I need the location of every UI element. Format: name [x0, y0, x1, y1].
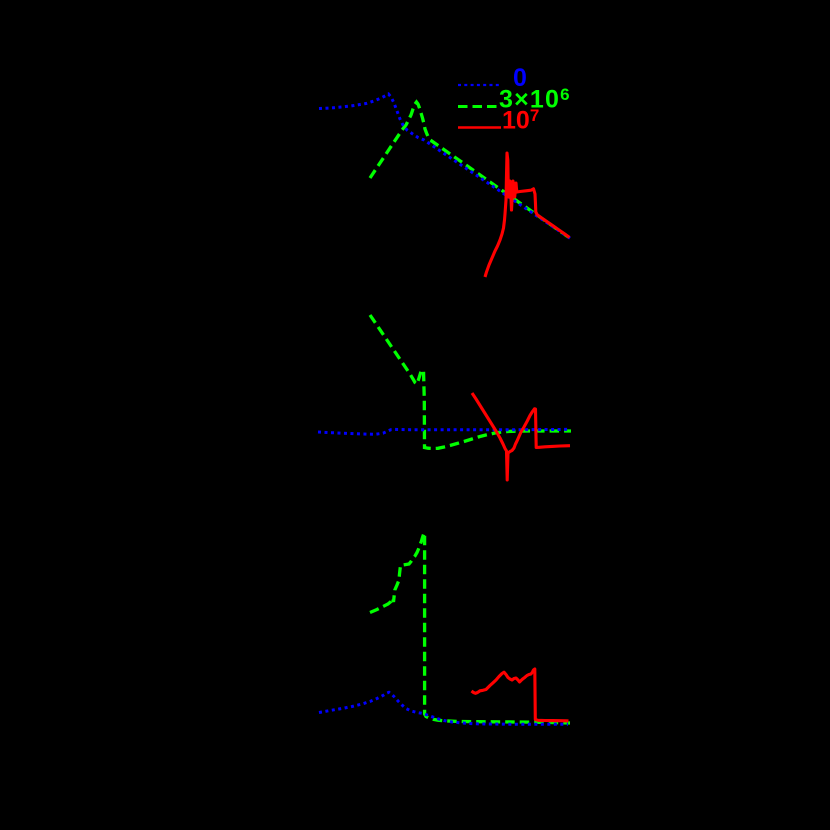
legend red solid sample line — [458, 126, 501, 128]
bottom panel blue dotted curve — [319, 692, 568, 724]
middle panel green dashed curve — [370, 315, 571, 449]
legend green dashed sample line — [458, 105, 500, 108]
legend blue dotted sample line — [458, 84, 500, 86]
middle panel blue dotted curve — [318, 429, 568, 434]
top panel red solid curve — [485, 153, 570, 277]
top panel blue dotted curve — [319, 94, 570, 238]
bottom panel red solid curve — [472, 669, 569, 721]
middle panel red solid curve — [472, 393, 570, 480]
top panel green dashed curve — [370, 102, 570, 238]
bottom panel green dashed curve — [370, 533, 570, 723]
